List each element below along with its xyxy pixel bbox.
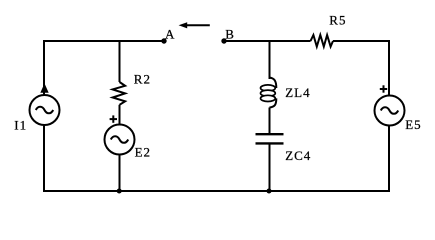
svg-text:B: B bbox=[225, 27, 235, 42]
resistor R2 bbox=[113, 82, 126, 105]
wire ZL4 to ZC4 bbox=[269, 108, 271, 135]
E2 plus sign bbox=[110, 115, 117, 122]
junction dot below ZC4 bbox=[267, 189, 272, 194]
wire R2 to E2 bbox=[119, 105, 121, 125]
node A dot bbox=[161, 38, 166, 43]
svg-text:A: A bbox=[165, 27, 175, 42]
svg-text:E5: E5 bbox=[405, 117, 421, 132]
I1 arrow up bbox=[41, 85, 48, 93]
wire left rail upper bbox=[43, 40, 45, 95]
wire right rail upper bbox=[388, 40, 390, 96]
svg-text:R5: R5 bbox=[329, 12, 346, 27]
switch arrowhead bbox=[179, 22, 188, 28]
wire E2 to bottom rail bbox=[119, 155, 121, 192]
AC source E5 bbox=[375, 96, 405, 126]
wire ZC4 to bottom rail bbox=[269, 143, 271, 191]
switch arrow bbox=[187, 24, 210, 26]
wire top rail B to R5 bbox=[224, 40, 311, 42]
node B dot bbox=[221, 38, 226, 43]
wire ZL4 branch top bbox=[269, 41, 271, 79]
junction dot below E2 bbox=[117, 189, 122, 194]
svg-text:ZL4: ZL4 bbox=[285, 85, 310, 100]
wire left rail lower bbox=[43, 125, 45, 192]
svg-text:E2: E2 bbox=[135, 145, 151, 160]
current source I1 bbox=[30, 95, 60, 125]
wire bottom rail bbox=[43, 190, 390, 192]
svg-text:R2: R2 bbox=[134, 71, 151, 86]
wire top-left rail bbox=[44, 40, 164, 42]
inductor ZL4 bbox=[261, 78, 277, 108]
capacitor ZC4 bbox=[256, 134, 284, 143]
AC source E2 bbox=[105, 125, 135, 155]
wire R2 branch top bbox=[119, 41, 121, 82]
wire R5 to top-right corner bbox=[333, 40, 390, 42]
svg-text:ZC4: ZC4 bbox=[285, 148, 311, 163]
svg-text:I1: I1 bbox=[14, 117, 27, 132]
resistor R5 bbox=[311, 35, 334, 47]
E5 plus sign bbox=[380, 85, 387, 92]
wire right rail lower bbox=[388, 126, 390, 193]
